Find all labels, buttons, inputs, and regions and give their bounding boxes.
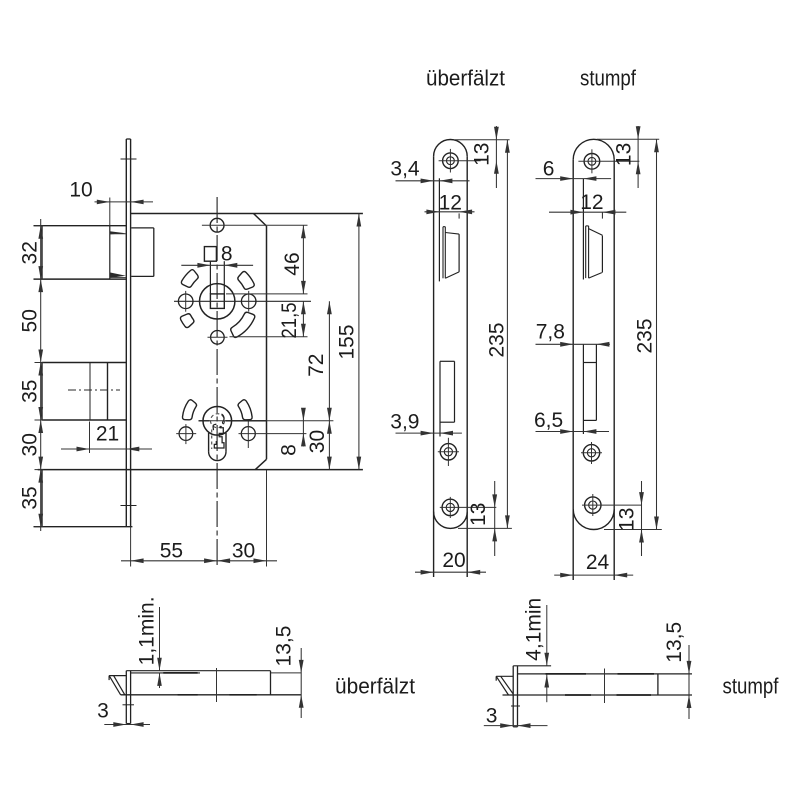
svg-text:30: 30 [306, 430, 329, 453]
svg-text:7,8: 7,8 [536, 320, 565, 343]
svg-text:6,5: 6,5 [534, 409, 563, 432]
svg-text:überfälzt: überfälzt [335, 674, 415, 699]
svg-text:stumpf: stumpf [723, 674, 780, 699]
svg-text:1,1min.: 1,1min. [135, 596, 158, 665]
svg-text:55: 55 [160, 540, 183, 563]
svg-text:stumpf: stumpf [580, 66, 637, 91]
svg-text:3,4: 3,4 [390, 158, 420, 181]
svg-text:20: 20 [442, 549, 465, 572]
svg-text:10: 10 [69, 179, 92, 202]
svg-text:35: 35 [19, 380, 42, 403]
svg-text:6: 6 [543, 157, 555, 180]
svg-text:72: 72 [305, 354, 328, 377]
svg-text:21,5: 21,5 [278, 303, 301, 339]
svg-text:155: 155 [335, 324, 358, 359]
svg-text:30: 30 [232, 540, 255, 563]
svg-text:12: 12 [580, 191, 603, 214]
svg-text:13: 13 [616, 508, 639, 531]
svg-text:13: 13 [613, 143, 636, 166]
svg-text:12: 12 [439, 192, 462, 215]
svg-text:3: 3 [97, 700, 109, 723]
svg-text:8: 8 [278, 444, 301, 456]
svg-text:35: 35 [19, 486, 42, 509]
svg-text:32: 32 [19, 241, 42, 264]
svg-text:13,5: 13,5 [663, 622, 686, 663]
svg-text:30: 30 [19, 433, 42, 456]
svg-text:46: 46 [281, 252, 304, 275]
svg-text:8: 8 [221, 242, 233, 265]
svg-text:13,5: 13,5 [273, 626, 296, 667]
svg-text:50: 50 [19, 309, 42, 332]
svg-text:21: 21 [96, 422, 119, 445]
svg-text:13: 13 [471, 143, 494, 166]
svg-text:3: 3 [486, 705, 498, 728]
svg-text:4,1min: 4,1min [523, 598, 546, 661]
svg-text:überfälzt: überfälzt [426, 66, 505, 91]
svg-text:3,9: 3,9 [390, 411, 419, 434]
svg-text:235: 235 [634, 318, 657, 353]
svg-text:13: 13 [467, 503, 490, 526]
svg-text:24: 24 [586, 551, 610, 574]
svg-text:235: 235 [486, 322, 509, 357]
